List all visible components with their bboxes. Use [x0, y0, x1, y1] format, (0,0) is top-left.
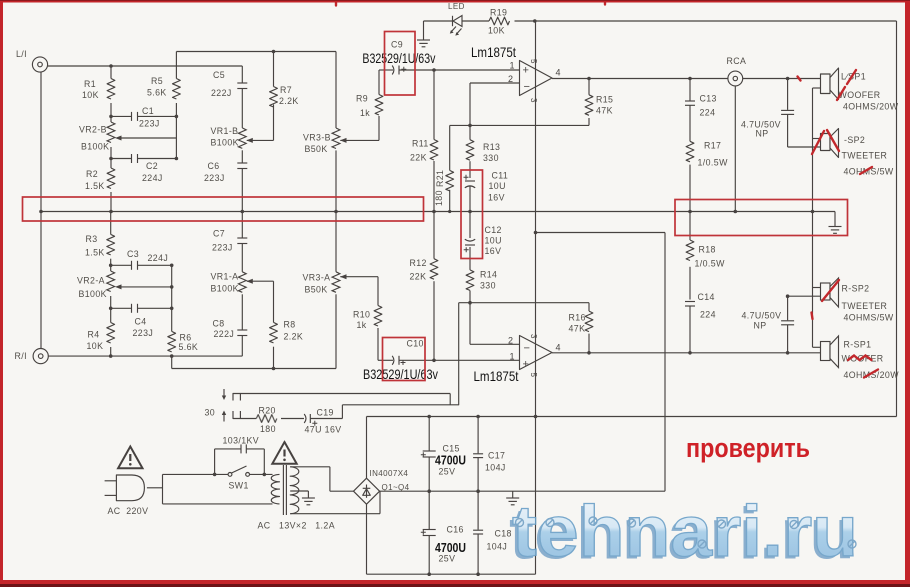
svg-text:1.5K: 1.5K: [85, 248, 105, 258]
svg-text:10U: 10U: [489, 181, 506, 191]
svg-text:B50K: B50K: [305, 144, 328, 154]
svg-text:4OHMS/5W: 4OHMS/5W: [844, 313, 894, 323]
svg-text:R7: R7: [280, 85, 292, 95]
svg-text:16V: 16V: [488, 193, 505, 203]
svg-text:NP: NP: [754, 321, 767, 331]
svg-text:R3: R3: [86, 234, 98, 244]
svg-text:B100K: B100K: [211, 284, 239, 294]
svg-text:R14: R14: [480, 270, 497, 280]
svg-text:R8: R8: [284, 320, 296, 330]
svg-text:25V: 25V: [439, 554, 456, 564]
svg-text:L/I: L/I: [16, 49, 27, 59]
svg-text:Lm1875t: Lm1875t: [474, 368, 519, 384]
svg-text:330: 330: [483, 153, 499, 163]
svg-text:10K: 10K: [488, 26, 505, 36]
svg-text:3: 3: [529, 98, 538, 103]
svg-text:VR2-A: VR2-A: [77, 276, 105, 286]
svg-text:5: 5: [529, 373, 538, 378]
svg-text:4OHMS/20W: 4OHMS/20W: [843, 102, 899, 112]
svg-text:R13: R13: [483, 142, 500, 152]
svg-text:224J: 224J: [142, 173, 163, 183]
svg-text:2: 2: [508, 336, 513, 346]
svg-text:222J: 222J: [214, 329, 235, 339]
svg-text:R4: R4: [88, 330, 100, 340]
svg-text:47K: 47K: [596, 106, 613, 116]
svg-text:C2: C2: [146, 161, 158, 171]
svg-text:R19: R19: [490, 8, 507, 18]
svg-text:223J: 223J: [139, 119, 160, 129]
svg-text:R21: R21: [435, 170, 445, 187]
svg-text:VR1-A: VR1-A: [211, 272, 239, 282]
svg-text:C16: C16: [447, 525, 464, 535]
svg-text:R12: R12: [410, 258, 427, 268]
svg-text:C11: C11: [492, 171, 509, 181]
svg-text:R17: R17: [704, 141, 721, 151]
svg-text:VR3-B: VR3-B: [303, 133, 331, 143]
svg-text:R15: R15: [596, 95, 613, 105]
svg-text:2: 2: [508, 74, 513, 84]
svg-text:VR1-B: VR1-B: [211, 126, 239, 136]
svg-text:1k: 1k: [360, 108, 370, 118]
svg-text:VR3-A: VR3-A: [303, 273, 331, 283]
svg-text:16V: 16V: [485, 246, 502, 256]
svg-text:2.2K: 2.2K: [284, 332, 304, 342]
svg-text:25V: 25V: [439, 467, 456, 477]
svg-text:104J: 104J: [487, 542, 508, 552]
svg-text:104J: 104J: [485, 463, 506, 473]
svg-text:C19: C19: [317, 408, 334, 418]
svg-text:C3: C3: [127, 249, 139, 259]
svg-text:222J: 222J: [211, 88, 232, 98]
svg-text:R5: R5: [151, 76, 163, 86]
svg-text:+: +: [523, 65, 529, 77]
svg-text:224J: 224J: [148, 253, 169, 263]
svg-text:B50K: B50K: [305, 285, 328, 295]
svg-text:R10: R10: [353, 310, 370, 320]
svg-text:C13: C13: [700, 94, 717, 104]
svg-text:C4: C4: [135, 317, 147, 327]
svg-text:1: 1: [510, 352, 515, 362]
svg-text:AC 13V×2 1.2A: AC 13V×2 1.2A: [258, 521, 335, 531]
svg-text:R9: R9: [356, 94, 368, 104]
svg-text:5.6K: 5.6K: [179, 342, 199, 352]
svg-text:LED: LED: [448, 2, 465, 11]
svg-text:2.2K: 2.2K: [279, 96, 299, 106]
svg-text:4: 4: [556, 343, 561, 353]
svg-text:1/0.5W: 1/0.5W: [698, 158, 729, 168]
svg-text:R6: R6: [180, 333, 192, 343]
svg-text:1k: 1k: [357, 320, 367, 330]
svg-text:30: 30: [205, 408, 216, 418]
svg-text:C6: C6: [208, 161, 220, 171]
svg-text:C10: C10: [407, 339, 424, 349]
svg-text:TWEETER: TWEETER: [842, 301, 888, 311]
svg-text:R1: R1: [84, 79, 96, 89]
svg-text:4700U: 4700U: [435, 540, 466, 555]
svg-text:4: 4: [556, 68, 561, 78]
svg-text:SW1: SW1: [229, 481, 249, 491]
svg-text:B32529/1U/63v: B32529/1U/63v: [363, 366, 438, 382]
svg-text:RCA: RCA: [727, 56, 747, 66]
svg-text:WOOFER: WOOFER: [839, 90, 881, 100]
svg-text:−: −: [524, 343, 530, 355]
svg-text:VR2-B: VR2-B: [79, 125, 107, 135]
svg-text:R-SP2: R-SP2: [842, 284, 870, 294]
svg-text:B32529/1U/63v: B32529/1U/63v: [362, 50, 435, 66]
svg-text:224: 224: [700, 310, 716, 320]
svg-text:C9: C9: [391, 40, 403, 50]
svg-text:R16: R16: [569, 313, 586, 323]
svg-text:C14: C14: [698, 292, 715, 302]
svg-text:R11: R11: [412, 139, 429, 149]
svg-text:B100K: B100K: [81, 142, 109, 152]
svg-text:3: 3: [529, 334, 538, 339]
svg-text:10U: 10U: [485, 236, 502, 246]
svg-text:1: 1: [510, 61, 515, 71]
svg-text:4.7U/50V: 4.7U/50V: [742, 311, 782, 321]
svg-text:C5: C5: [213, 70, 225, 80]
svg-text:NP: NP: [756, 129, 769, 139]
svg-text:C17: C17: [488, 451, 505, 461]
svg-text:330: 330: [480, 281, 496, 291]
svg-text:+: +: [523, 359, 529, 371]
svg-text:4700U: 4700U: [435, 453, 466, 468]
svg-text:C7: C7: [213, 229, 225, 239]
svg-text:4OHMS/20W: 4OHMS/20W: [844, 370, 900, 380]
svg-text:22K: 22K: [410, 153, 427, 163]
svg-text:180: 180: [434, 190, 444, 206]
svg-text:R-SP1: R-SP1: [844, 340, 872, 350]
svg-text:B100K: B100K: [211, 138, 239, 148]
svg-text:C12: C12: [485, 225, 502, 235]
svg-text:-SP2: -SP2: [844, 135, 865, 145]
svg-text:−: −: [524, 81, 530, 93]
svg-text:10K: 10K: [87, 341, 104, 351]
svg-text:R20: R20: [259, 406, 276, 416]
svg-text:Q1~Q4: Q1~Q4: [382, 483, 410, 492]
svg-text:1/0.5W: 1/0.5W: [695, 259, 726, 269]
svg-text:22K: 22K: [410, 272, 427, 282]
svg-text:223J: 223J: [133, 328, 154, 338]
svg-text:5: 5: [529, 59, 538, 64]
svg-text:C8: C8: [213, 319, 225, 329]
svg-text:Lm1875t: Lm1875t: [471, 44, 516, 60]
svg-text:IN4007X4: IN4007X4: [370, 469, 409, 478]
svg-text:103/1KV: 103/1KV: [223, 436, 260, 446]
svg-text:проверить: проверить: [686, 433, 810, 463]
svg-text:10K: 10K: [82, 90, 99, 100]
svg-text:tehnari.ru: tehnari.ru: [512, 492, 858, 572]
svg-text:R18: R18: [699, 245, 716, 255]
svg-text:47U 16V: 47U 16V: [305, 425, 342, 435]
svg-text:C1: C1: [142, 106, 154, 116]
svg-text:AC 220V: AC 220V: [108, 506, 149, 516]
svg-text:5.6K: 5.6K: [147, 88, 167, 98]
svg-text:223J: 223J: [212, 243, 233, 253]
svg-text:224: 224: [700, 108, 716, 118]
svg-text:223J: 223J: [204, 173, 225, 183]
svg-text:47K: 47K: [569, 324, 586, 334]
svg-text:R/I: R/I: [15, 351, 27, 361]
svg-text:180: 180: [260, 424, 276, 434]
svg-text:1.5K: 1.5K: [85, 181, 105, 191]
svg-text:TWEETER: TWEETER: [842, 151, 888, 161]
svg-text:R2: R2: [86, 169, 98, 179]
svg-text:B100K: B100K: [79, 289, 107, 299]
